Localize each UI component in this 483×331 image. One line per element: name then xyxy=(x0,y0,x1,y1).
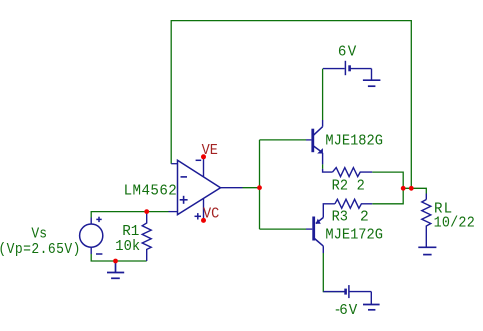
wire feedback top xyxy=(171,21,411,189)
svg-text:VC: VC xyxy=(203,206,219,223)
svg-text:10k: 10k xyxy=(115,238,140,255)
wire plus input from source xyxy=(91,212,168,218)
wire Q1 emitter to R2 xyxy=(322,153,324,165)
op-amp top power minus label xyxy=(196,159,202,161)
wire R3 left to Q2 emitter xyxy=(323,204,335,218)
junction dot R1 top / plus input xyxy=(144,209,149,214)
junction dot feedback node xyxy=(409,186,414,191)
wire R2 right to output node xyxy=(372,172,403,188)
junction dot source bottom xyxy=(113,259,118,264)
battery -6V xyxy=(323,285,379,310)
op-amp minus input label xyxy=(181,176,188,178)
resistor RL xyxy=(422,200,431,248)
resistor R2 xyxy=(333,168,373,177)
Q2 emitter arrow xyxy=(316,219,321,224)
ground at RL xyxy=(418,247,436,254)
wire op-amp minus input stub xyxy=(171,163,177,165)
source plus label xyxy=(96,218,101,220)
svg-text:MJE172G: MJE172G xyxy=(325,227,383,244)
wire Q1 collector to 6V battery xyxy=(322,120,324,127)
svg-text:6V: 6V xyxy=(338,44,358,60)
Q1 emitter arrow xyxy=(317,148,323,153)
op-amp top power pin xyxy=(203,157,205,177)
wire to Q2 base xyxy=(260,228,307,230)
wire op-amp plus input stub xyxy=(169,211,178,213)
svg-text:Vs: Vs xyxy=(31,226,47,243)
svg-text:2: 2 xyxy=(360,210,369,226)
op-amp plus input label xyxy=(180,199,188,201)
svg-text:10/22: 10/22 xyxy=(434,215,475,232)
wire Q2 collector to -6V battery xyxy=(322,246,324,253)
junction dot op-amp output xyxy=(257,185,262,190)
resistor R3 xyxy=(335,199,372,208)
op-amp U1 LM4562 triangle xyxy=(178,160,221,214)
resistor R1 xyxy=(142,212,151,261)
svg-text:6V: 6V xyxy=(339,303,358,319)
svg-text:MJE182G: MJE182G xyxy=(325,133,383,150)
node VC red dot xyxy=(201,218,206,223)
svg-text:LM4562: LM4562 xyxy=(124,183,178,199)
battery 6V xyxy=(323,61,380,86)
ground at source xyxy=(107,261,124,278)
svg-text:(Vp=2.65V): (Vp=2.65V) xyxy=(0,242,81,259)
junction dot R2/R3 node xyxy=(401,186,406,191)
source minus label xyxy=(96,253,102,255)
node VE red dot xyxy=(201,154,206,159)
svg-text:VE: VE xyxy=(202,143,218,160)
svg-text:R2 2: R2 2 xyxy=(332,178,365,195)
wire to Q1 base xyxy=(260,139,307,141)
transistor Q2 MJE172G xyxy=(314,217,324,247)
op-amp bottom power pin xyxy=(203,199,205,221)
transistor Q1 MJE182G xyxy=(313,127,323,153)
source Vs circle xyxy=(80,224,103,247)
wire R3 right to output node xyxy=(372,188,403,204)
op-amp bottom power plus label xyxy=(195,215,202,217)
wire node row to RL xyxy=(403,188,426,193)
wire op-amp output xyxy=(221,187,243,189)
svg-text:R3: R3 xyxy=(332,209,348,226)
wire source bottom to R1 bottom xyxy=(90,247,92,254)
wire output split vertical xyxy=(259,140,261,229)
